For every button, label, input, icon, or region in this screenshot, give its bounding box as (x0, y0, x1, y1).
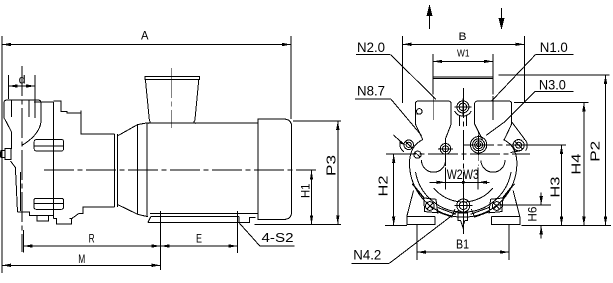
head inner wall line (19, 172, 21, 211)
motor cone top slant (117, 123, 147, 136)
horizontal centerline right view (386, 153, 530, 155)
flow arrow up (427, 4, 433, 29)
svg-text:H6: H6 (528, 207, 540, 222)
casing inner shell (416, 172, 512, 212)
casing top boss (53, 101, 114, 134)
drain stub (458, 213, 467, 227)
right port inner arc (481, 160, 505, 172)
R/E/M middle extension line (160, 211, 162, 270)
svg-text:W3: W3 (463, 167, 479, 182)
left face plug (5, 149, 11, 160)
centerline vertical discharge port (171, 68, 173, 128)
left pad (424, 198, 438, 213)
dimension A right extension line (290, 36, 292, 119)
svg-text:W2: W2 (447, 167, 463, 182)
upper-left bolt (400, 140, 414, 152)
bracket bottom profile (72, 207, 115, 219)
motor front flange face (137, 125, 139, 215)
dimension B1 (417, 224, 509, 260)
drain boss trapezoid (452, 209, 475, 218)
dimension M (2, 264, 161, 267)
right strap upper double line (502, 184, 515, 199)
casing outer shell (410, 140, 517, 218)
vertical centerline right view (462, 88, 464, 234)
casing front face (53, 102, 55, 219)
head bottom (18, 212, 54, 216)
svg-text:P2: P2 (588, 141, 603, 162)
upper boss midline (34, 145, 63, 147)
port flare left (5, 119, 12, 132)
svg-text:N3.0: N3.0 (539, 77, 566, 93)
svg-text:E: E (196, 232, 202, 246)
right port centerline (492, 96, 494, 120)
dimension d (9, 75, 36, 118)
left strap upper double line (412, 184, 425, 199)
head bottom small pad (37, 216, 49, 222)
top center bolt (455, 99, 472, 127)
discharge port flange plate (145, 77, 199, 80)
dimension H2 (392, 154, 395, 225)
svg-text:W1: W1 (457, 48, 470, 60)
motor body top (147, 122, 258, 124)
chamber bore arc (434, 188, 493, 202)
dimension P3 (336, 121, 339, 224)
port flare right S-curve (23, 122, 42, 145)
left port inner arc (421, 160, 445, 172)
right foot gusset (513, 191, 520, 217)
left port block (415, 101, 451, 124)
svg-text:H2: H2 (376, 176, 391, 197)
right strap lower double line (471, 208, 490, 218)
dimension H4 (514, 102, 589, 225)
svg-text:N1.0: N1.0 (540, 39, 568, 55)
R left extension solid (22, 230, 24, 252)
svg-text:P3: P3 (324, 155, 339, 176)
foot plate right step (238, 217, 240, 223)
left port hole marker (417, 109, 423, 115)
dimension H6 (495, 193, 551, 239)
right pad (489, 198, 503, 213)
centerline vertical suction port (21, 66, 23, 252)
big bolt (W3 / N3.0) (469, 135, 489, 155)
svg-text:M: M (78, 252, 85, 266)
dimension A line (2, 43, 291, 46)
baseline extension left of feet (385, 225, 407, 227)
E right extension line (237, 211, 239, 253)
fan cover (258, 119, 292, 219)
svg-text:N8.7: N8.7 (357, 83, 385, 99)
left port trapezoid (415, 124, 451, 140)
lower boss on casing face (34, 198, 64, 209)
P3 top extension line (293, 120, 341, 122)
svg-text:B1: B1 (456, 237, 469, 252)
fan cover left edge full (257, 119, 259, 219)
motor front face (146, 123, 148, 217)
left foot gusset (407, 191, 414, 217)
svg-text:R: R (89, 232, 95, 246)
head left edge (10, 132, 12, 150)
bracket end double verticals (113, 134, 115, 207)
dimension H1 (310, 171, 313, 225)
left foot bolt (426, 202, 435, 211)
top line port to casing (34, 101, 54, 103)
B left extension line (402, 36, 404, 103)
left port centerline (432, 96, 434, 120)
bolt axis centerline right (464, 144, 532, 146)
left foot (407, 217, 435, 225)
svg-text:N2.0: N2.0 (357, 39, 385, 55)
motor foot plate (148, 217, 256, 223)
svg-text:B: B (459, 31, 467, 43)
centerline horizontal left view (44, 169, 316, 171)
dimension P2 (499, 75, 610, 226)
4-S2 leader (239, 223, 260, 246)
B right extension line (523, 36, 525, 103)
right port trapezoid (475, 124, 512, 140)
svg-text:H4: H4 (569, 154, 584, 175)
bottom center bolt (454, 197, 472, 215)
svg-text:A: A (141, 29, 149, 43)
dimension W2W3 (429, 131, 489, 190)
4-S2 underline (260, 245, 295, 247)
dimension E (161, 244, 238, 247)
H1/P3 bottom extension line (255, 223, 341, 225)
right side bolt (511, 122, 528, 153)
motor body bottom (150, 212, 258, 214)
baseline extension right of feet (522, 225, 612, 227)
dimension B (403, 43, 525, 46)
svg-text:N4.2: N4.2 (353, 247, 381, 263)
discharge port bottom hooks (149, 121, 196, 124)
upper boss on casing face (34, 140, 63, 151)
svg-text:4-S2: 4-S2 (262, 230, 294, 245)
suction port block (left) (4, 100, 41, 122)
right foot (492, 217, 520, 225)
svg-text:H1: H1 (300, 184, 312, 199)
dimension W1 (433, 60, 493, 63)
lower boss midline (34, 203, 64, 205)
flow arrow down (499, 8, 505, 30)
dimension R (23, 244, 160, 247)
dimension H3 (525, 145, 566, 225)
left strap lower double line (437, 208, 456, 218)
right foot bolt (492, 202, 501, 211)
discharge port trapezoid (top) (145, 80, 198, 121)
top duct left side (432, 54, 434, 94)
small bolt below-left (414, 151, 421, 158)
port bore lines (11, 100, 13, 117)
top duct right side (492, 54, 494, 94)
dimension A left extension line (1, 36, 3, 273)
casing rear step vertical (80, 111, 82, 135)
top flange plate double line (433, 76, 493, 78)
right port block (475, 101, 512, 124)
bolt under left port (W2) (438, 142, 453, 157)
casing foot block (54, 219, 72, 224)
motor cone bottom slant (117, 204, 148, 216)
svg-text:H3: H3 (548, 177, 563, 198)
